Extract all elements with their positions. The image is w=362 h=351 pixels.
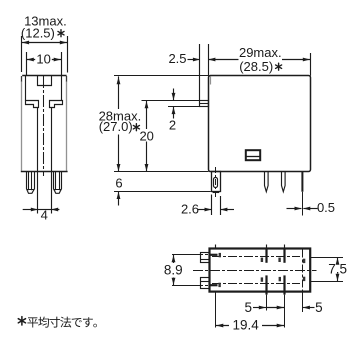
svg-text:10: 10 <box>36 52 50 67</box>
svg-text:0.5: 0.5 <box>317 200 335 215</box>
svg-text:(28.5): (28.5) <box>239 59 273 74</box>
svg-text:5: 5 <box>244 300 252 315</box>
svg-text:4: 4 <box>41 207 48 222</box>
svg-text:19.4: 19.4 <box>232 317 259 332</box>
svg-text:(12.5): (12.5) <box>21 25 55 40</box>
svg-text:8.9: 8.9 <box>164 262 183 277</box>
svg-text:2.5: 2.5 <box>168 51 186 66</box>
svg-text:29max.: 29max. <box>239 45 282 60</box>
svg-text:2.6: 2.6 <box>181 202 199 217</box>
svg-text:6: 6 <box>115 175 122 190</box>
svg-text:20: 20 <box>139 128 153 143</box>
svg-text:5: 5 <box>315 300 323 315</box>
svg-text:7.5: 7.5 <box>328 261 347 276</box>
svg-text:2: 2 <box>169 118 176 133</box>
svg-text:(27.0): (27.0) <box>99 119 133 134</box>
